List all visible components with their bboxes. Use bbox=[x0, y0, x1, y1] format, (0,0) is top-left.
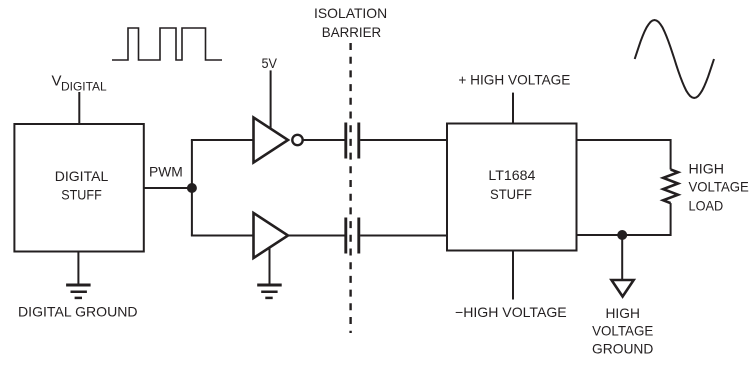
svg-text:V: V bbox=[52, 73, 62, 90]
svg-text:GROUND: GROUND bbox=[592, 340, 653, 356]
svg-text:STUFF: STUFF bbox=[490, 186, 532, 202]
svg-text:VOLTAGE: VOLTAGE bbox=[592, 322, 653, 338]
svg-text:HIGH: HIGH bbox=[689, 160, 725, 176]
svg-text:ISOLATION: ISOLATION bbox=[314, 5, 387, 21]
svg-text:PWM: PWM bbox=[149, 163, 183, 179]
svg-text:LOAD: LOAD bbox=[689, 197, 724, 213]
svg-text:DIGITAL GROUND: DIGITAL GROUND bbox=[18, 304, 138, 320]
svg-text:DIGITAL: DIGITAL bbox=[55, 168, 109, 184]
svg-text:LT1684: LT1684 bbox=[488, 167, 535, 183]
svg-text:5V: 5V bbox=[262, 55, 278, 71]
svg-text:BARRIER: BARRIER bbox=[322, 24, 381, 40]
svg-text:DIGITAL: DIGITAL bbox=[61, 80, 107, 94]
svg-text:+ HIGH VOLTAGE: + HIGH VOLTAGE bbox=[458, 72, 570, 88]
svg-text:−HIGH VOLTAGE: −HIGH VOLTAGE bbox=[455, 304, 567, 320]
svg-text:HIGH: HIGH bbox=[606, 305, 640, 321]
svg-text:STUFF: STUFF bbox=[61, 187, 102, 203]
svg-text:VOLTAGE: VOLTAGE bbox=[689, 179, 749, 195]
